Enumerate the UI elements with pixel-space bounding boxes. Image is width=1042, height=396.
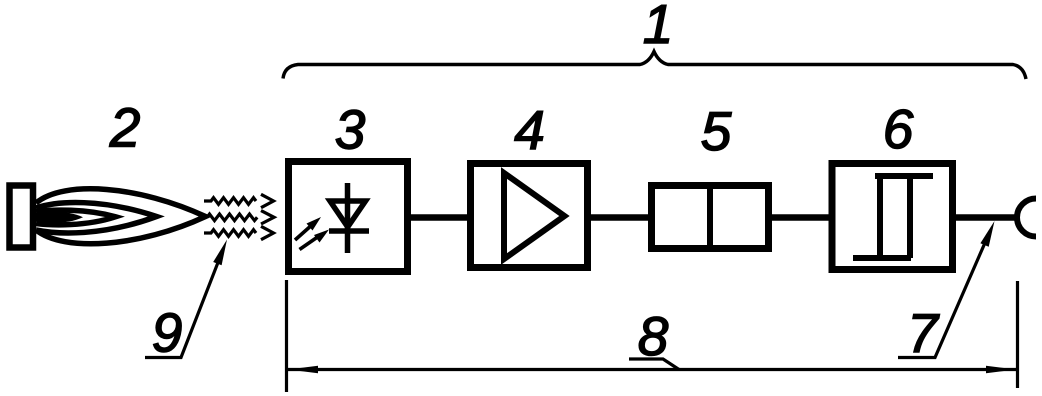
dimension line 8 xyxy=(288,368,1016,371)
svg-text:6: 6 xyxy=(883,98,914,160)
svg-text:4: 4 xyxy=(514,99,545,161)
leader 7 arrowhead xyxy=(980,221,994,247)
svg-text:3: 3 xyxy=(335,99,366,161)
hysteresis top line xyxy=(875,173,933,179)
hysteresis bottom line xyxy=(853,255,911,261)
photodiode triangle xyxy=(330,201,366,227)
flame 2 core dart xyxy=(36,211,83,222)
leader 7 xyxy=(898,239,987,357)
extension line right (node under output) xyxy=(1016,281,1019,388)
burner nozzle xyxy=(10,186,34,248)
flame 2 outer tongue xyxy=(36,189,206,244)
hysteresis right vertical xyxy=(907,176,913,258)
block 4 amplifier box xyxy=(471,164,588,268)
svg-text:1: 1 xyxy=(643,0,674,55)
radiation wave bottom xyxy=(204,226,274,239)
block 5 filter box xyxy=(652,186,769,249)
svg-text:8: 8 xyxy=(638,305,669,367)
hysteresis left vertical xyxy=(877,176,883,258)
leader 9 arrowhead xyxy=(213,240,227,266)
wire 6-output xyxy=(956,214,1016,221)
photodiode vertical lead xyxy=(345,183,351,253)
svg-text:9: 9 xyxy=(152,302,183,364)
wire 4-5 xyxy=(588,214,651,221)
label 8 shelf xyxy=(629,359,679,370)
output terminal 7 (half circle) xyxy=(1017,199,1036,237)
svg-text:7: 7 xyxy=(907,302,940,364)
leader 9 xyxy=(145,258,220,357)
flame 2 inner tongue xyxy=(36,210,116,225)
extension line left (node under block 3) xyxy=(285,280,288,392)
dimension arrowhead right xyxy=(986,366,1016,374)
radiation wave middle xyxy=(207,211,274,224)
block 6 threshold box xyxy=(832,164,953,270)
dimension arrowhead left xyxy=(288,366,318,374)
block 3 photodetector box xyxy=(289,162,408,272)
photodiode light arrow lower xyxy=(300,236,320,250)
amplifier triangle xyxy=(504,173,565,259)
wire 5-6 xyxy=(769,214,832,221)
filter divider xyxy=(707,185,713,249)
svg-text:2: 2 xyxy=(109,97,141,159)
photodiode light arrow upper xyxy=(295,224,313,240)
wire 3-4 xyxy=(408,214,470,221)
brace 1 (device boundary bracket) xyxy=(283,52,1026,80)
photodiode cathode bar xyxy=(329,228,369,234)
svg-text:5: 5 xyxy=(701,100,732,162)
radiation wave top xyxy=(204,194,274,207)
flame 2 middle tongue xyxy=(36,203,157,233)
